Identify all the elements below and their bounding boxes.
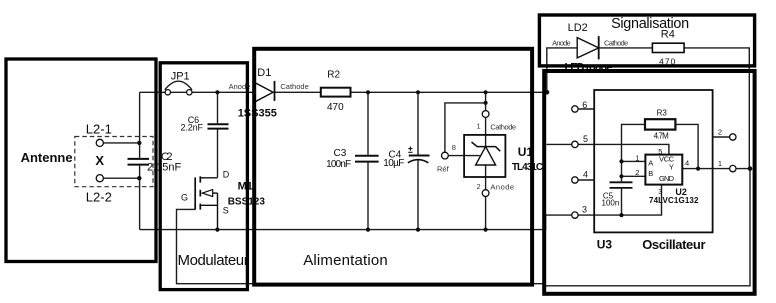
svg-text:4.7M: 4.7M [654,132,670,141]
svg-text:2.2nF: 2.2nF [181,123,204,133]
svg-text:LD2: LD2 [568,22,588,34]
svg-text:74LVC1G132: 74LVC1G132 [649,196,699,205]
svg-text:3: 3 [658,187,662,196]
svg-text:2: 2 [477,182,481,191]
svg-text:B: B [648,169,653,178]
svg-text:D: D [223,169,230,179]
svg-text:Cathode: Cathode [280,82,308,91]
svg-text:4: 4 [685,159,689,168]
svg-text:1: 1 [718,159,722,168]
svg-text:2: 2 [635,168,639,177]
svg-text:M1: M1 [238,181,253,193]
svg-text:Oscillateur: Oscillateur [642,237,705,252]
svg-text:D1: D1 [257,67,271,79]
svg-text:5: 5 [583,134,588,144]
svg-text:Antenne: Antenne [21,150,73,165]
svg-text:Y: Y [669,163,674,172]
svg-text:2.15nF: 2.15nF [147,161,182,173]
svg-text:R3: R3 [657,108,668,117]
svg-text:100nF: 100nF [326,159,351,170]
svg-text:Cathode: Cathode [490,123,516,132]
svg-text:10µF: 10µF [383,158,404,169]
svg-text:U3: U3 [597,237,613,251]
svg-text:A: A [648,158,653,167]
svg-text:G: G [181,193,188,203]
svg-text:L2-1: L2-1 [86,122,112,137]
svg-text:JP1: JP1 [171,71,190,83]
svg-text:Alimentation: Alimentation [303,252,388,269]
svg-text:8: 8 [452,143,456,152]
svg-text:X: X [95,153,104,168]
svg-text:GND: GND [659,174,675,183]
svg-text:L2-2: L2-2 [86,189,112,204]
svg-text:4: 4 [583,169,588,179]
svg-text:TL431C: TL431C [512,162,543,173]
svg-text:C3: C3 [334,148,347,159]
svg-text:Anode: Anode [490,183,514,192]
svg-text:2: 2 [718,127,722,136]
svg-text:3: 3 [582,205,587,215]
svg-text:R2: R2 [327,70,340,81]
svg-text:470: 470 [327,102,344,113]
svg-text:1: 1 [635,153,639,162]
svg-text:Réf: Réf [437,164,450,173]
svg-text:Cathode: Cathode [604,38,628,47]
svg-text:R4: R4 [661,29,675,41]
svg-text:6: 6 [582,100,587,110]
svg-text:Anode: Anode [552,38,571,47]
svg-text:100n: 100n [602,198,620,207]
svg-text:1SS355: 1SS355 [238,108,277,120]
svg-text:1: 1 [477,121,481,130]
svg-text:Signalisation: Signalisation [611,16,689,32]
svg-text:Modulateur: Modulateur [178,252,249,269]
